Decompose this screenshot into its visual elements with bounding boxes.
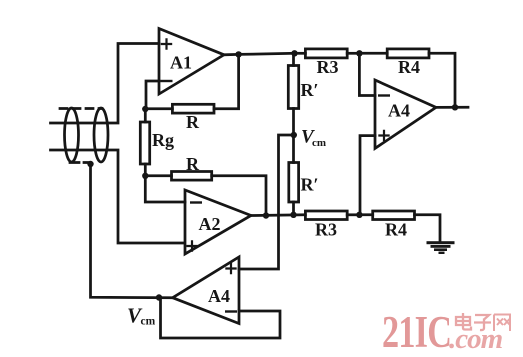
resistor Rg (140, 122, 149, 164)
wire A1 inverting input (146, 81, 159, 109)
op-amp A2 minus sign (191, 201, 201, 203)
svg-text:R: R (186, 154, 200, 174)
junction dot buffer output (156, 294, 162, 300)
resistor R-prime top (288, 66, 298, 109)
wire A2 output (251, 213, 305, 216)
resistor R3 top (305, 49, 347, 58)
op-amp A2 (185, 190, 251, 254)
wire R2 left lead (145, 174, 171, 177)
wire R-prime bottom top lead (292, 135, 295, 163)
resistor R4 top (387, 49, 429, 58)
op-amp A4 bottom (173, 257, 239, 324)
op-amp A2 plus sign (187, 241, 196, 250)
node B junction dot (142, 173, 148, 179)
wire top A4 non-inverting input (360, 136, 375, 215)
svg-text:A1: A1 (170, 53, 192, 73)
wire top A4 inverting input (359, 53, 375, 95)
junction dot R-prime top (291, 50, 297, 56)
watermark chinese 电子网 (456, 313, 510, 331)
junction dot A2 feedback (263, 212, 269, 218)
svg-text:R3: R3 (317, 57, 339, 77)
watermark char zi (474, 315, 491, 330)
wire R4 top to output node (429, 53, 455, 107)
svg-text:A2: A2 (199, 214, 221, 234)
cable shield ellipse right (94, 108, 108, 162)
watermark char wang (494, 315, 510, 332)
wire junction to R4 top (359, 52, 387, 55)
op-amp A1 plus sign (162, 39, 171, 48)
wire R-prime bottom lead (292, 109, 295, 136)
wire shield to A4 buffer output (91, 164, 173, 298)
svg-text:cm: cm (141, 316, 156, 328)
svg-text:R4: R4 (385, 220, 407, 240)
cable shield dashed top (60, 107, 102, 110)
wire R-prime bottom bottom lead (292, 202, 295, 215)
svg-text:R4: R4 (398, 57, 420, 77)
wire R3 bottom to junction (347, 213, 359, 216)
ground (427, 241, 455, 254)
wire A1 output (224, 53, 295, 55)
junction dot R3-R4 top (356, 50, 362, 56)
wire A4 bottom feedback loop (161, 298, 281, 338)
svg-text:R′: R′ (300, 175, 318, 195)
op-amp A4 bottom minus sign (226, 310, 236, 312)
cable shield ellipse left (65, 108, 79, 162)
resistor R-prime bottom (289, 163, 299, 203)
svg-text:R3: R3 (315, 220, 337, 240)
junction dot R-prime bottom (290, 212, 296, 218)
op-amp A1 minus sign (162, 80, 172, 82)
resistor R3 bottom (305, 211, 347, 220)
wire A4 top output (436, 106, 468, 109)
wire Rg top lead (144, 109, 147, 122)
wire bottom input to A2 + (51, 150, 185, 243)
cable shield dashed bottom (70, 161, 90, 164)
op-amp A4 bottom plus sign (226, 264, 235, 273)
wire top input to A1 + (51, 44, 160, 124)
junction dot R3-R4 bottom (356, 212, 362, 218)
svg-text:A4: A4 (388, 101, 410, 121)
watermark char dian (456, 313, 471, 330)
resistor R4 bottom (373, 211, 415, 220)
resistor R (A1 feedback) (172, 104, 214, 113)
wire R4 bottom to ground (415, 215, 441, 242)
op-amp A1 (159, 29, 224, 95)
wire R right lead up to A1 output (214, 54, 239, 108)
svg-text:A4: A4 (208, 286, 230, 306)
wire junction to R4 bottom (359, 213, 372, 216)
junction dot A1 output (235, 51, 241, 57)
op-amp A4 top (375, 80, 436, 148)
svg-text:R′: R′ (300, 80, 318, 100)
wire A2 inverting input (145, 176, 185, 202)
wire R2 right lead down to A2 output (212, 176, 266, 216)
svg-text:21IC: 21IC (382, 306, 451, 357)
svg-text:.com: .com (449, 323, 503, 355)
resistor R (A2 feedback) (172, 172, 212, 181)
op-amp A4 top plus sign (379, 131, 388, 140)
junction dot A4 output (452, 104, 458, 110)
svg-text:cm: cm (312, 137, 326, 149)
wire to R3 top (295, 52, 306, 55)
op-amp A4 top minus sign (379, 94, 389, 96)
wire R3 to junction (347, 52, 359, 55)
svg-text:R: R (186, 112, 200, 132)
svg-text:Rg: Rg (152, 130, 174, 150)
wire Vcm node to bottom A4 plus input (239, 135, 294, 269)
node A junction dot (142, 106, 148, 112)
shield junction dot (87, 161, 93, 167)
wire Rg bottom lead (144, 164, 147, 176)
wire R-prime top lead (292, 53, 295, 65)
wire R left lead (145, 107, 172, 110)
junction dot Vcm node (291, 132, 297, 138)
